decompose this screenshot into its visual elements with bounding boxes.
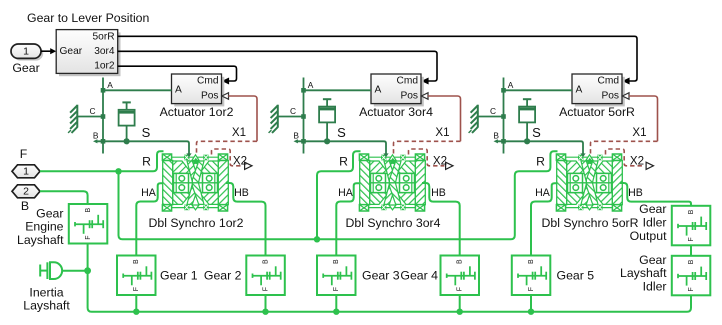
label A station 1	[107, 80, 113, 90]
label Gear Idler Output	[630, 202, 667, 243]
svg-text:Gear: Gear	[639, 253, 666, 267]
label HB station 3	[628, 187, 643, 199]
wire port2 to Gear Engine Layshaft	[40, 191, 88, 204]
wire X2 station 3	[606, 149, 654, 169]
node B station 2	[301, 139, 306, 144]
junction F line	[115, 168, 121, 174]
label Gear 5	[557, 269, 595, 283]
label X1 station 1	[232, 126, 246, 139]
ground wall station 2	[269, 105, 278, 133]
label C station 3	[490, 106, 496, 116]
node C station 2	[301, 114, 306, 119]
block Actuator 5orR	[572, 74, 625, 106]
junction damper-B station 2	[324, 138, 330, 144]
junction rail synchro2 R	[314, 236, 320, 242]
svg-text:1: 1	[23, 166, 29, 178]
wire gear F drop x=265.5	[265, 295, 267, 312]
label Gear 3	[362, 269, 400, 283]
svg-text:5orR: 5orR	[93, 31, 115, 42]
svg-text:Engine: Engine	[25, 220, 63, 234]
svg-text:R: R	[536, 155, 545, 169]
svg-text:Gear 2: Gear 2	[204, 269, 242, 283]
svg-text:Layshaft: Layshaft	[23, 298, 70, 312]
wire rail to synchro2 R	[317, 151, 361, 239]
node B station 1	[101, 139, 106, 144]
wire F rail down and across	[119, 151, 558, 239]
wire gear F drop x=336.3	[335, 295, 337, 312]
wire 5orR to actuator Cmd	[118, 36, 637, 84]
wire A station 3 to actuator	[504, 89, 573, 91]
label X2 station 3	[630, 155, 644, 168]
label Actuator 1or2	[160, 105, 234, 119]
svg-text:3or4: 3or4	[94, 46, 115, 57]
wire HB synchro1	[226, 183, 266, 256]
label Gear (inport)	[12, 61, 39, 75]
label C station 1	[89, 106, 95, 116]
label F	[20, 147, 28, 161]
wire bottom rail	[88, 244, 691, 312]
label Gear 1	[160, 269, 198, 283]
junction rail x=136.3	[133, 309, 139, 315]
svg-text:Gear 3: Gear 3	[362, 269, 400, 283]
label A station 3	[508, 80, 514, 90]
svg-text:1: 1	[23, 45, 29, 57]
wire gear F drop x=531.0	[530, 295, 532, 312]
svg-text:X2: X2	[630, 155, 644, 168]
svg-text:Gear 1: Gear 1	[160, 269, 198, 283]
wire HA synchro2	[336, 183, 359, 255]
label HA station 3	[535, 187, 551, 199]
svg-text:Inertia: Inertia	[29, 285, 63, 299]
damper station 3	[519, 99, 535, 141]
svg-text:Actuator 1or2: Actuator 1or2	[160, 105, 234, 119]
node C station 1	[101, 114, 106, 119]
inport 1 (Gear)	[11, 44, 43, 61]
node C station 3	[501, 114, 506, 119]
label HB station 2	[431, 187, 446, 199]
svg-text:HA: HA	[338, 187, 354, 199]
pin Pos hollow arrow (actuator 3)	[622, 93, 629, 100]
wire gear F drop x=459.7	[459, 295, 461, 312]
svg-text:Dbl Synchro 3or4: Dbl Synchro 3or4	[345, 216, 440, 230]
wire station 3 vertical A-C-B	[503, 78, 505, 154]
block Gear Idler Output	[672, 206, 711, 246]
svg-text:A: A	[375, 84, 382, 95]
block Gear 2	[246, 256, 284, 296]
damper station 1	[119, 102, 135, 141]
label Actuator 3or4	[359, 105, 433, 119]
block Actuator 3or4	[371, 74, 424, 106]
svg-text:Gear 4: Gear 4	[400, 269, 438, 283]
svg-text:HB: HB	[431, 187, 446, 199]
pin Pos hollow arrow (actuator 1)	[222, 93, 229, 100]
node A station 2	[301, 88, 306, 93]
svg-text:Gear: Gear	[639, 202, 666, 216]
wire HA synchro3	[531, 183, 557, 255]
label S station 3	[532, 125, 541, 140]
label X2 station 1	[233, 155, 247, 168]
node A station 1	[101, 88, 106, 93]
svg-text:X2: X2	[233, 155, 247, 168]
svg-text:Dbl Synchro 1or2: Dbl Synchro 1or2	[148, 216, 243, 230]
label A station 2	[308, 80, 314, 90]
junction rail x=265.5	[262, 309, 268, 315]
junction damper-B station 1	[124, 138, 130, 144]
svg-text:S: S	[532, 125, 541, 140]
block Dbl Synchro 1or2 icon	[162, 154, 228, 211]
label Inertia Layshaft	[23, 285, 70, 312]
svg-text:Layshaft: Layshaft	[620, 266, 667, 280]
svg-text:R: R	[142, 155, 151, 169]
svg-text:HA: HA	[141, 187, 157, 199]
svg-text:Cmd: Cmd	[396, 76, 418, 87]
svg-text:1or2: 1or2	[94, 61, 115, 72]
label B station 3	[493, 131, 499, 141]
label Gear to Lever Position	[27, 11, 150, 25]
label X2 station 2	[433, 155, 447, 168]
node A station 3	[501, 88, 506, 93]
label S station 2	[337, 125, 346, 140]
label B (port 2)	[21, 199, 29, 213]
wire C station 1	[77, 116, 103, 118]
wire HA synchro1	[136, 183, 163, 255]
svg-text:X1: X1	[632, 126, 646, 139]
svg-text:C: C	[89, 106, 95, 116]
svg-text:Gear 5: Gear 5	[557, 269, 595, 283]
svg-text:A: A	[175, 84, 182, 95]
junction rail x=531.0	[528, 309, 534, 315]
damper station 2	[319, 99, 335, 141]
svg-text:S: S	[337, 125, 346, 140]
svg-text:A: A	[576, 84, 583, 95]
label B station 1	[93, 131, 99, 141]
block Gear Engine Layshaft	[69, 204, 108, 244]
block Gear to Lever Position	[56, 30, 120, 77]
wire C station 3	[478, 116, 504, 118]
wire HB synchro3	[620, 183, 691, 206]
label C station 2	[290, 106, 296, 116]
svg-text:C: C	[490, 106, 496, 116]
block Dbl Synchro 5orR icon	[556, 154, 622, 211]
block Gear Layshaft Idler	[672, 256, 711, 295]
svg-text:HB: HB	[234, 187, 249, 199]
label X1 station 3	[632, 126, 646, 139]
svg-text:Dbl Synchro 5orR: Dbl Synchro 5orR	[541, 216, 638, 230]
svg-text:Layshaft: Layshaft	[17, 233, 64, 247]
svg-text:X1: X1	[435, 126, 449, 139]
ground wall station 1	[68, 105, 77, 133]
label R station 3	[536, 155, 545, 169]
wire 1or2 to actuator Cmd	[118, 66, 237, 84]
junction damper-B station 3	[524, 138, 530, 144]
svg-text:Gear: Gear	[36, 206, 63, 220]
block Gear 4	[441, 256, 480, 296]
svg-text:C: C	[290, 106, 296, 116]
label X1 station 2	[435, 126, 449, 139]
wire B/S rail station 1	[93, 139, 189, 154]
block Gear 1	[117, 256, 156, 296]
wire inport to Gear port + arrowhead	[41, 48, 56, 54]
wire B/S rail station 3	[494, 139, 584, 154]
svg-text:Gear: Gear	[60, 46, 83, 57]
wire F to synchro1 R	[40, 151, 164, 171]
wire gear F drop x=136.3	[135, 295, 137, 312]
svg-text:Idler: Idler	[643, 279, 667, 293]
pin S marker station 3	[580, 153, 585, 157]
svg-text:B: B	[293, 131, 299, 141]
label Actuator 5orR	[559, 105, 635, 119]
svg-text:A: A	[508, 80, 514, 90]
junction rail x=336.3	[333, 309, 339, 315]
wire B/S rail station 2	[294, 139, 387, 154]
label Dbl Synchro 5orR	[541, 216, 638, 230]
block Actuator 1or2	[172, 74, 225, 106]
label Gear Layshaft Idler	[620, 253, 667, 294]
label R station 1	[142, 155, 151, 169]
block Dbl Synchro 3or4 icon	[359, 154, 425, 211]
ground wall station 3	[469, 105, 478, 133]
label R station 2	[339, 155, 348, 169]
svg-text:Actuator 5orR: Actuator 5orR	[559, 105, 635, 119]
label HB station 1	[234, 187, 249, 199]
wire 3or4 to actuator Cmd	[118, 51, 437, 84]
label Gear 4	[400, 269, 438, 283]
connection port B (2)	[12, 185, 40, 198]
svg-text:Pos: Pos	[201, 91, 219, 102]
svg-text:B: B	[493, 131, 499, 141]
svg-text:F: F	[20, 147, 28, 161]
svg-text:X1: X1	[232, 126, 246, 139]
pin Pos hollow arrow (actuator 2)	[421, 93, 428, 100]
wire X1 Pos station 2	[394, 96, 461, 155]
svg-text:Pos: Pos	[400, 91, 418, 102]
wire HB synchro2	[422, 183, 460, 256]
svg-text:Idler: Idler	[643, 216, 667, 230]
svg-text:X2: X2	[433, 155, 447, 168]
svg-text:Cmd: Cmd	[197, 76, 219, 87]
wire X1 Pos station 3	[591, 96, 658, 155]
wire A station 1 to actuator	[103, 89, 172, 91]
label S station 1	[142, 125, 151, 140]
svg-text:Output: Output	[630, 229, 667, 243]
wire X2 station 2	[409, 149, 454, 169]
svg-text:Actuator 3or4: Actuator 3or4	[359, 105, 433, 119]
svg-text:A: A	[107, 80, 113, 90]
svg-text:Cmd: Cmd	[597, 76, 619, 87]
label Gear 2	[204, 269, 242, 283]
connection port F (1)	[12, 165, 40, 178]
wire X1 Pos station 1	[197, 96, 258, 155]
svg-text:Gear to Lever Position: Gear to Lever Position	[27, 11, 150, 25]
block Inertia Layshaft	[40, 262, 62, 279]
svg-text:HB: HB	[628, 187, 643, 199]
label Gear Engine Layshaft	[17, 206, 64, 247]
block Gear 3	[317, 256, 356, 296]
svg-text:R: R	[339, 155, 348, 169]
svg-text:A: A	[308, 80, 314, 90]
wire station 1 vertical A-C-B	[102, 78, 104, 154]
svg-text:B: B	[93, 131, 99, 141]
pin S marker station 1	[186, 153, 191, 157]
junction inertia	[84, 267, 91, 274]
wire A station 2 to actuator	[304, 89, 372, 91]
svg-text:B: B	[21, 199, 29, 213]
svg-text:S: S	[142, 125, 151, 140]
block Gear 5	[512, 256, 551, 296]
wire GIO to GLI	[690, 245, 692, 256]
svg-text:Pos: Pos	[601, 91, 619, 102]
wire station 2 vertical A-C-B	[303, 78, 305, 154]
node B station 3	[501, 139, 506, 144]
wire X2 station 1	[212, 149, 253, 169]
svg-text:Gear: Gear	[12, 61, 39, 75]
label Dbl Synchro 3or4	[345, 216, 440, 230]
junction rail x=459.7	[457, 309, 463, 315]
wire C station 2	[278, 116, 304, 118]
label Dbl Synchro 1or2	[148, 216, 243, 230]
label HA station 1	[141, 187, 157, 199]
wire inertia to layshaft line	[62, 270, 88, 272]
pin S marker station 2	[383, 153, 388, 157]
label B station 2	[293, 131, 299, 141]
svg-text:HA: HA	[535, 187, 551, 199]
svg-text:2: 2	[23, 186, 29, 198]
label HA station 2	[338, 187, 354, 199]
